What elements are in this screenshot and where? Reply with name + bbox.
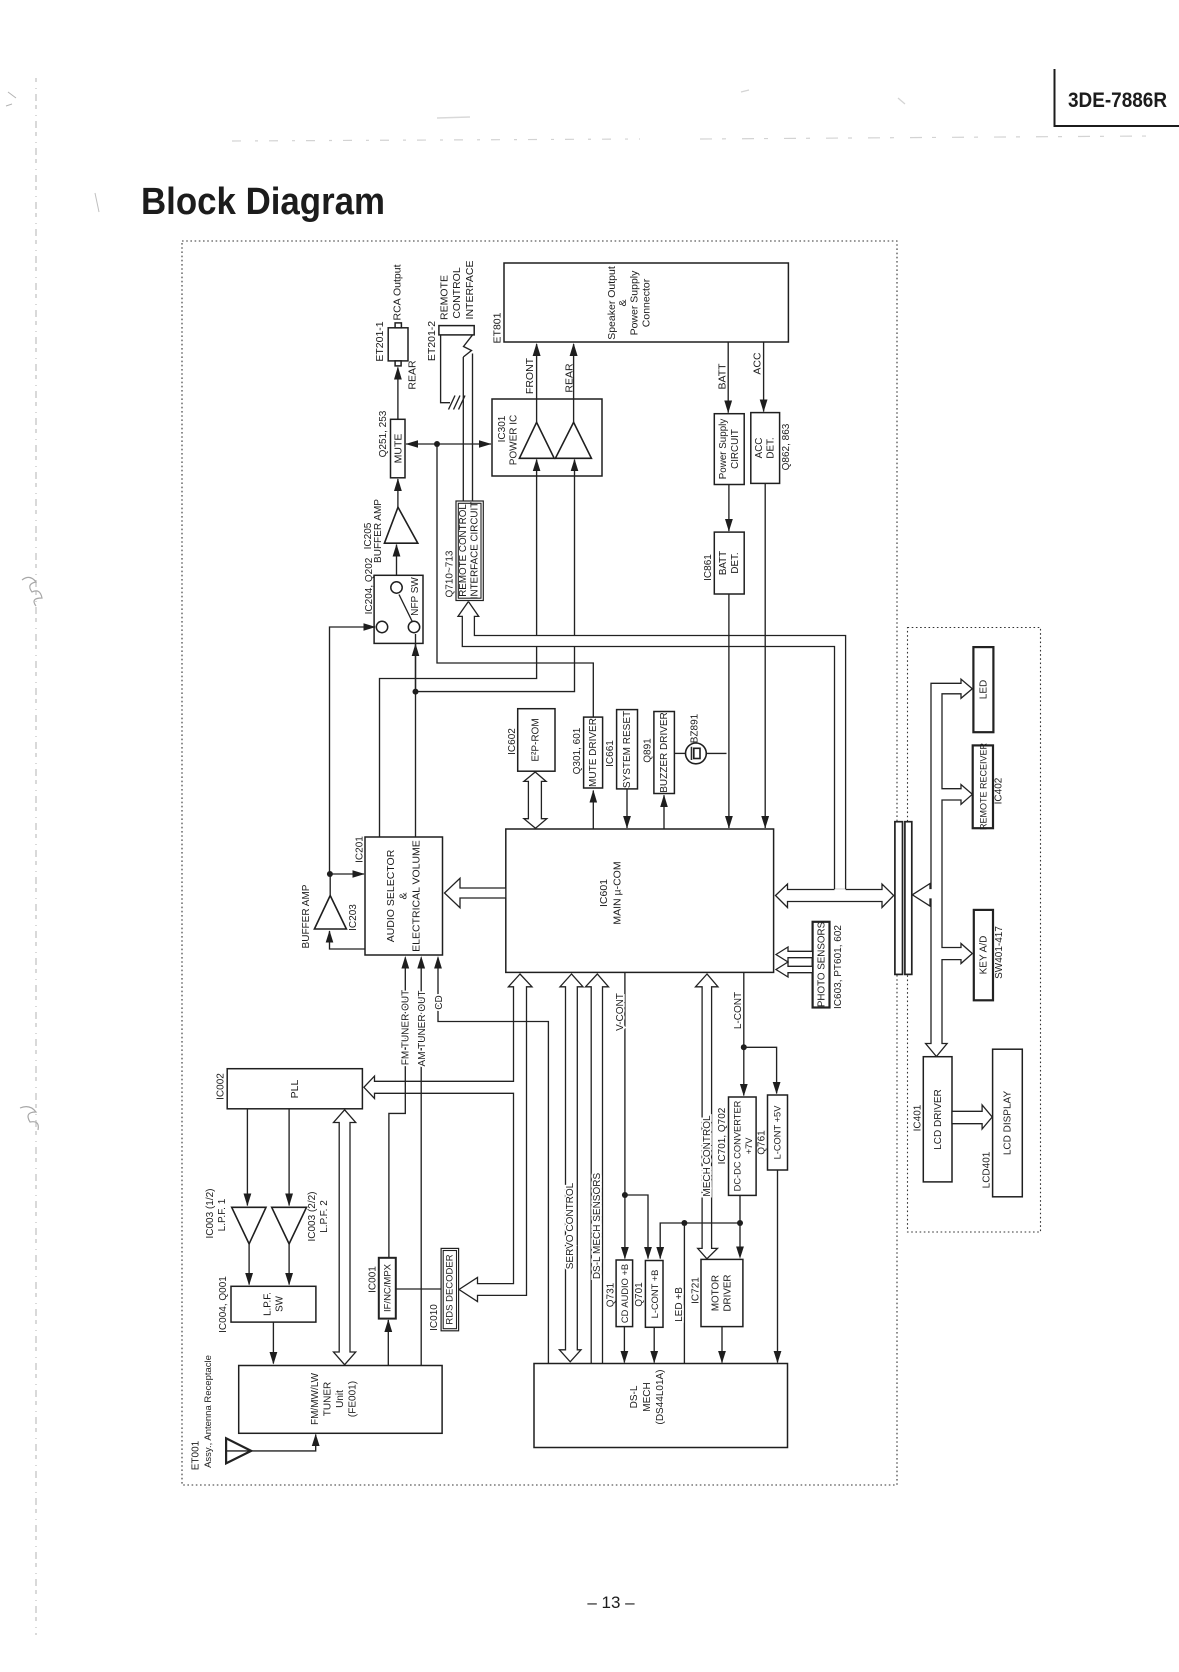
svg-text:CD: CD xyxy=(434,995,445,1009)
svg-text:ACC: ACC xyxy=(754,438,765,459)
svg-text:IC721: IC721 xyxy=(691,1277,702,1304)
svg-text:IC601: IC601 xyxy=(598,879,610,907)
wire dc-dc output to motor driver, L-CONT +B and LED +B xyxy=(656,1195,744,1363)
svg-text:NFP SW: NFP SW xyxy=(410,577,421,616)
switch Q731 CD AUDIO +B box xyxy=(616,1260,633,1327)
wire IC203 output junction to audio selector xyxy=(327,870,365,895)
wire ET201-2 ground lead xyxy=(441,335,450,403)
amplifier triangle rear channel xyxy=(555,422,591,458)
op-amp IC203 buffer amp triangle xyxy=(314,896,346,930)
svg-text:L-CONT: L-CONT xyxy=(733,992,744,1029)
svg-text:FM/MW/LW: FM/MW/LW xyxy=(310,1372,321,1425)
svg-text:&: & xyxy=(617,299,629,306)
hollow bus connector bar to display unit with branches xyxy=(912,679,972,1056)
svg-text:INTERFACE CIRCUIT: INTERFACE CIRCUIT xyxy=(470,502,481,599)
connector bar 2 display unit xyxy=(905,822,912,975)
power amp IC301 POWER IC box xyxy=(492,399,602,476)
svg-text:AM TUNER OUT: AM TUNER OUT xyxy=(417,991,428,1067)
svg-text:Q710~713: Q710~713 xyxy=(445,550,456,597)
amplifier triangle front channel xyxy=(519,422,554,458)
if/nc/mpx IC001 box xyxy=(379,1258,396,1319)
wire buffer amp IC203 output to NFP SW input xyxy=(330,623,376,874)
buzzer BZ891 xyxy=(674,743,726,764)
svg-text:IC004, Q001: IC004, Q001 xyxy=(218,1276,229,1333)
svg-text:IC861: IC861 xyxy=(703,554,714,581)
wire CD audio from DS-L mech to audio selector xyxy=(434,956,548,1364)
hollow arrow photo sensors to microcomputer upper xyxy=(776,947,813,962)
regulator Q761 L-CONT +5V box xyxy=(768,1095,788,1170)
cd mechanism DS-L MECH DS44L01A box xyxy=(534,1364,788,1448)
svg-text:BUFFER AMP: BUFFER AMP xyxy=(373,499,384,563)
wire microcomputer to buzzer driver xyxy=(660,795,668,830)
antenna symbol xyxy=(226,1438,251,1463)
op-amp IC205 buffer amp triangle xyxy=(384,507,417,543)
microcomputer IC601 MAIN u-COM box xyxy=(506,829,774,972)
svg-text:Q701: Q701 xyxy=(634,1282,645,1307)
hollow arrow PLL tuner bidirectional xyxy=(334,1110,356,1365)
wire audio to rear amp input xyxy=(416,459,579,692)
lpf switch IC004,Q001 box xyxy=(231,1286,316,1322)
wire LPF1 to LPF SW xyxy=(245,1244,253,1286)
wire AM tuner out to audio selector xyxy=(417,956,425,1366)
wire NFP SW lower contact from audio selector xyxy=(415,634,417,692)
rds decoder IC010 box xyxy=(441,1248,459,1330)
header model box 3DE-7886R xyxy=(1055,69,1179,126)
svg-text:REAR: REAR xyxy=(564,363,576,393)
svg-text:Connector: Connector xyxy=(641,278,653,327)
svg-text:IC402: IC402 xyxy=(994,777,1005,804)
wire mute to RCA output xyxy=(394,367,402,420)
svg-text:PHOTO SENSORS: PHOTO SENSORS xyxy=(817,921,828,1007)
svg-text:RDS DECODER: RDS DECODER xyxy=(445,1254,456,1324)
svg-text:REMOTE CONTROL: REMOTE CONTROL xyxy=(458,504,469,597)
svg-text:Block Diagram: Block Diagram xyxy=(141,181,385,223)
svg-text:– 13 –: – 13 – xyxy=(587,1593,635,1612)
hollow wire DS-L mech sensors to microcomputer xyxy=(586,974,609,1364)
svg-text:V-CONT: V-CONT xyxy=(615,993,626,1031)
svg-text:LED: LED xyxy=(979,680,990,699)
wire microcomputer to mute driver xyxy=(590,790,598,829)
wire tuner to if/nc/mpx xyxy=(384,1319,392,1365)
photo sensors box xyxy=(813,921,830,1007)
wire buffer amp to mute xyxy=(394,478,402,507)
wire audio selector to NFP SW xyxy=(412,644,420,838)
audio selector IC201 box xyxy=(365,837,443,955)
wire LPF SW to tuner xyxy=(270,1322,278,1364)
svg-text:MOTOR: MOTOR xyxy=(711,1275,722,1311)
connector bar 1 main unit xyxy=(895,822,903,975)
connector ET201-1 RCA xyxy=(388,323,408,366)
svg-text:&: & xyxy=(398,892,410,899)
svg-text:Unit: Unit xyxy=(335,1390,346,1408)
filter IC003 (2/2) LPF2 triangle xyxy=(272,1207,307,1244)
svg-text:FM TUNER OUT: FM TUNER OUT xyxy=(401,990,412,1065)
wire system reset to microcomputer xyxy=(623,789,631,829)
dc-dc converter IC701,Q702 box xyxy=(729,1097,757,1195)
svg-text:E²P-ROM: E²P-ROM xyxy=(531,718,542,761)
svg-text:Q891: Q891 xyxy=(643,738,654,763)
pll IC002 box xyxy=(227,1069,362,1109)
tuner FM/MW/LW unit FE001 box xyxy=(239,1366,442,1434)
svg-text:CD AUDIO +B: CD AUDIO +B xyxy=(620,1264,630,1323)
svg-text:MECH: MECH xyxy=(642,1382,653,1411)
scan artifact left margin line xyxy=(6,78,99,1635)
svg-text:Power Supply: Power Supply xyxy=(718,419,729,480)
svg-text:Q761: Q761 xyxy=(757,1130,768,1155)
svg-text:SERVO CONTROL: SERVO CONTROL xyxy=(565,1182,576,1269)
svg-text:ET201-2: ET201-2 xyxy=(426,321,438,361)
svg-text:IC003 (2/2): IC003 (2/2) xyxy=(307,1191,318,1241)
hollow arrow eeprom to microcomputer bidirectional xyxy=(524,772,547,828)
svg-text:Q862, 863: Q862, 863 xyxy=(781,423,792,470)
hollow arrow microcomputer to audio selector xyxy=(445,878,506,907)
wire NFP SW to buffer amp xyxy=(393,544,401,582)
switch Q701 L-CONT +B box xyxy=(645,1261,663,1328)
svg-text:SW401-417: SW401-417 xyxy=(994,926,1005,979)
svg-text:DRIVER: DRIVER xyxy=(723,1274,734,1311)
lcd driver IC401 box xyxy=(923,1057,952,1182)
wire V-CONT to CD audio +B and L-CONT +B switches xyxy=(621,972,652,1259)
svg-text:REMOTE RECEIVER: REMOTE RECEIVER xyxy=(979,742,989,830)
svg-text:IC203: IC203 xyxy=(348,904,359,931)
batt det IC861 box xyxy=(714,532,744,594)
wire L-CONT +B to DS-L mech xyxy=(650,1327,658,1363)
svg-text:ET201-1: ET201-1 xyxy=(374,321,386,361)
svg-text:ELECTRICAL VOLUME: ELECTRICAL VOLUME xyxy=(411,840,423,952)
key A/D SW401-417 box xyxy=(974,910,993,1000)
svg-text:ACC: ACC xyxy=(752,352,764,375)
switch IC204,Q202 NFP SW box xyxy=(374,575,423,643)
wire if/nc/mpx to rds decoder link xyxy=(396,1288,442,1290)
system reset IC661 box xyxy=(617,710,638,789)
svg-text:FRONT: FRONT xyxy=(524,357,536,394)
wire ET201-2 signal leads with coil xyxy=(463,335,472,501)
display unit dotted border xyxy=(908,628,1041,1233)
svg-text:Q251, 253: Q251, 253 xyxy=(378,410,389,457)
svg-text:IC201: IC201 xyxy=(355,836,366,863)
hollow wire mech control microcomputer to motor driver xyxy=(696,974,719,1259)
svg-text:L-CONT +5V: L-CONT +5V xyxy=(773,1105,783,1160)
svg-text:LCD DISPLAY: LCD DISPLAY xyxy=(1003,1091,1014,1156)
svg-text:KEY A/D: KEY A/D xyxy=(979,936,990,975)
wire audio to front amp input xyxy=(380,459,541,837)
svg-text:IC401: IC401 xyxy=(913,1104,924,1131)
wire L-CONT to dc-dc converter and +5V regulator xyxy=(740,972,781,1096)
svg-text:L.P.F. 2: L.P.F. 2 xyxy=(319,1200,330,1233)
buzzer driver Q891 box xyxy=(654,712,675,794)
svg-text:L-CONT +B: L-CONT +B xyxy=(650,1270,660,1319)
svg-text:Assy., Antenna Receptacle: Assy., Antenna Receptacle xyxy=(203,1355,214,1468)
wire power ic rear output to ET801 xyxy=(570,343,578,422)
connector ET201-2 xyxy=(439,326,474,335)
led indicator box xyxy=(973,647,993,732)
svg-text:IC661: IC661 xyxy=(605,740,616,767)
svg-text:RCA Output: RCA Output xyxy=(392,264,404,320)
svg-text:LED +B: LED +B xyxy=(674,1287,685,1322)
svg-text:MAIN µ-COM: MAIN µ-COM xyxy=(612,861,624,924)
svg-text:SW: SW xyxy=(275,1295,286,1312)
svg-text:Q731: Q731 xyxy=(606,1282,617,1307)
svg-text:IC603, PT601, 602: IC603, PT601, 602 xyxy=(833,925,844,1009)
svg-text:MUTE: MUTE xyxy=(393,434,405,464)
wire PLL to LPF2 xyxy=(285,1109,293,1206)
svg-text:MECH CONTROL: MECH CONTROL xyxy=(702,1115,713,1197)
svg-text:ET801: ET801 xyxy=(492,312,504,343)
remote control interface circuit Q710~713 box xyxy=(456,501,483,601)
svg-text:REMOTE: REMOTE xyxy=(439,275,451,320)
svg-text:IC204, Q202: IC204, Q202 xyxy=(364,557,375,614)
svg-text:BATT: BATT xyxy=(717,363,729,390)
wire FM tuner out if/nc/mpx to audio selector xyxy=(389,956,409,1258)
svg-text:IF/NC/MPX: IF/NC/MPX xyxy=(383,1263,394,1312)
wire power supply to batt det xyxy=(725,485,733,532)
svg-text:L.P.F. 1: L.P.F. 1 xyxy=(217,1198,228,1231)
svg-text:BUZZER DRIVER: BUZZER DRIVER xyxy=(659,712,670,793)
hollow wire microcomputer to connector bar xyxy=(776,884,894,908)
mute Q251,253 box xyxy=(391,419,406,478)
acc det Q862,863 box xyxy=(751,413,780,484)
wire mute control line with arrows to MUTE and POWER IC xyxy=(406,440,594,716)
svg-text:DS-L MECH SENSORS: DS-L MECH SENSORS xyxy=(592,1173,603,1280)
power supply circuit box xyxy=(714,414,744,485)
filter IC003 (1/2) LPF1 triangle xyxy=(232,1207,266,1244)
svg-text:CONTROL: CONTROL xyxy=(451,267,463,318)
svg-text:(FE001): (FE001) xyxy=(348,1381,359,1417)
wire audio selector to IC203 input xyxy=(326,930,365,949)
hollow arrow photo sensors to microcomputer lower xyxy=(776,962,813,977)
label REMOTE CONTROL INTERFACE xyxy=(439,261,477,320)
node junction rear audio xyxy=(413,689,419,695)
hollow arrow lcd driver to lcd display xyxy=(952,1105,992,1129)
svg-text:IC010: IC010 xyxy=(429,1304,440,1331)
svg-text:IC002: IC002 xyxy=(216,1073,227,1100)
motor driver IC721 box xyxy=(701,1259,743,1326)
wire CD audio +B to DS-L mech xyxy=(621,1327,629,1364)
eeprom IC602 E2P-ROM box xyxy=(518,709,555,772)
connector ET801 Speaker Output & Power Supply Connector xyxy=(504,263,788,342)
svg-text:BZ891: BZ891 xyxy=(690,713,701,743)
svg-text:DC-DC CONVERTER: DC-DC CONVERTER xyxy=(733,1100,743,1191)
svg-text:ET001: ET001 xyxy=(191,1440,202,1470)
svg-text:BUFFER AMP: BUFFER AMP xyxy=(301,884,312,948)
svg-text:SYSTEM RESET: SYSTEM RESET xyxy=(622,711,633,788)
svg-text:Power Supply: Power Supply xyxy=(629,270,641,336)
wire LPF2 to LPF SW xyxy=(285,1244,293,1286)
svg-text:LCD401: LCD401 xyxy=(982,1151,993,1188)
svg-text:LCD DRIVER: LCD DRIVER xyxy=(933,1089,944,1150)
wire L-CONT +5V to DS-L mech xyxy=(774,1170,782,1363)
svg-text:IC701, Q702: IC701, Q702 xyxy=(717,1107,728,1164)
wire antenna to tuner xyxy=(251,1434,319,1451)
svg-text:REAR: REAR xyxy=(407,360,419,390)
svg-text:DS-L: DS-L xyxy=(629,1385,640,1408)
wire PLL to LPF1 xyxy=(244,1109,252,1206)
wire ACC from ET801 xyxy=(760,342,768,412)
ground chassis symbol xyxy=(449,396,466,410)
svg-text:INTERFACE: INTERFACE xyxy=(464,261,476,320)
svg-text:POWER IC: POWER IC xyxy=(509,415,520,466)
remote receiver IC402 box xyxy=(973,742,993,830)
svg-text:IC001: IC001 xyxy=(368,1266,379,1293)
svg-text:DET.: DET. xyxy=(766,437,777,458)
svg-text:+7V: +7V xyxy=(744,1137,754,1155)
svg-text:3DE-7886R: 3DE-7886R xyxy=(1068,88,1167,112)
svg-text:PLL: PLL xyxy=(289,1080,301,1099)
svg-text:BATT: BATT xyxy=(718,551,729,575)
hollow bus remote control interface to connector xyxy=(458,602,846,894)
svg-text:CIRCUIT: CIRCUIT xyxy=(730,429,741,469)
wire power ic front output to ET801 xyxy=(533,343,541,422)
wire BATT from ET801 xyxy=(724,342,732,413)
svg-text:(DS44L01A): (DS44L01A) xyxy=(655,1369,666,1424)
svg-text:L.P.F.: L.P.F. xyxy=(263,1292,274,1316)
main unit dotted border xyxy=(182,241,897,1485)
hollow wire servo control bidirectional xyxy=(559,974,583,1362)
svg-text:IC301: IC301 xyxy=(497,415,508,442)
wire motor driver to DS-L mech xyxy=(718,1327,726,1364)
svg-text:TUNER: TUNER xyxy=(323,1382,334,1416)
svg-text:Q301, 601: Q301, 601 xyxy=(572,727,583,774)
hollow bus microcomputer to PLL and RDS decoder xyxy=(364,974,532,1302)
wire acc det to microcomputer xyxy=(761,483,769,828)
svg-text:DET.: DET. xyxy=(730,552,741,573)
wire batt det to microcomputer xyxy=(725,594,733,829)
lcd display LCD401 box xyxy=(993,1049,1023,1197)
svg-text:IC602: IC602 xyxy=(507,728,518,755)
scan artifact top smear xyxy=(232,90,1152,141)
svg-text:AUDIO SELECTOR: AUDIO SELECTOR xyxy=(385,849,397,942)
mute driver Q301,601 box xyxy=(584,717,603,788)
svg-text:IC003 (1/2): IC003 (1/2) xyxy=(205,1188,216,1238)
svg-text:MUTE DRIVER: MUTE DRIVER xyxy=(588,718,599,787)
